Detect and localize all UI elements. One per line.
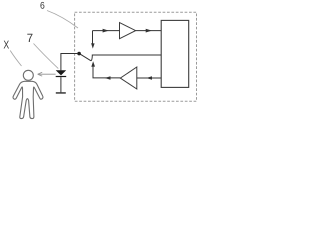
wire: diode anode up and right to node: [61, 54, 78, 71]
leader line for 7: [34, 44, 59, 69]
switch upper contact: vertical with down arrowhead: [92, 31, 94, 44]
switch blade from node: [81, 54, 92, 61]
label 6: [40, 2, 44, 9]
diode cathode lead: [60, 77, 62, 92]
wire: A1 output to rectangle: [136, 30, 162, 32]
LED / diode 7 (filled triangle): [56, 70, 66, 75]
control unit rectangle: [161, 20, 189, 87]
wire: switch upper contact corner to A1 input: [93, 30, 120, 32]
leader line for X: [10, 51, 21, 67]
radiation arrow toward person: [39, 73, 56, 75]
label X: [4, 41, 9, 49]
leader line for 6: [47, 11, 78, 29]
dashed enclosure box 6: [75, 12, 197, 101]
arrowhead on A1 input wire: [103, 29, 109, 33]
wire: rectangle to A2 input: [137, 77, 161, 79]
wire: blade end riser and middle wire to rectangle: [91, 55, 161, 61]
person X: head: [23, 70, 33, 80]
op-amp A2 (bottom amplifier): [120, 67, 137, 89]
arrowhead on A2 input wire (points left): [146, 76, 152, 80]
person X: body outline: [13, 81, 43, 118]
label 7: [27, 34, 32, 42]
arrowhead on A1 output wire: [146, 29, 152, 33]
diode cathode bar: [56, 76, 66, 77]
op-amp A1 (top amplifier): [120, 23, 136, 39]
switch lower contact: up arrowhead and vertical to bottom wire: [91, 61, 95, 67]
bottom terminal bar: [56, 92, 66, 93]
arrowhead on bottom-left wire (points left): [105, 76, 111, 80]
node junction dot: [77, 52, 81, 56]
